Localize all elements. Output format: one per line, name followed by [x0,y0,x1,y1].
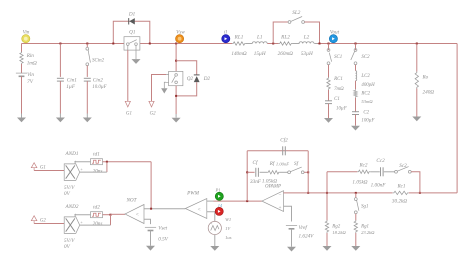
svg-text:20ns: 20ns [93,168,103,174]
switch SL2 [288,10,304,24]
wire [384,171,395,173]
svg-text:RL2: RL2 [280,34,290,40]
wire [305,22,320,44]
wire feedback right [307,151,309,193]
ground [412,117,421,122]
node junction [175,60,177,62]
source W triangle [208,217,231,240]
svg-text:+: + [210,222,212,226]
switch SC2 [351,49,370,65]
svg-text:SCin2: SCin2 [92,59,105,64]
wire [247,171,254,173]
svg-text:D1: D1 [128,12,136,18]
wire [150,162,152,209]
ground Q2 aux [161,82,167,93]
node junction [110,214,112,216]
wire [355,65,357,71]
svg-text:Rg2: Rg2 [331,225,340,230]
wire [103,214,111,216]
wire Vout feedback drop [456,44,458,193]
ground [146,246,155,251]
ground switch leg [172,118,181,123]
wire [207,200,214,202]
node junction [106,161,108,163]
capacitor C2 [352,111,376,124]
wire [280,171,288,173]
svg-text:10.0µF: 10.0µF [92,85,107,90]
wire PWM out [144,208,185,210]
svg-text:Vout: Vout [330,30,340,36]
probe Vout [329,30,339,43]
node junction [59,43,61,45]
svg-text:5V/V: 5V/V [64,238,75,244]
svg-text:20ns: 20ns [93,221,103,227]
svg-text:td2: td2 [93,205,100,211]
svg-text:D2: D2 [203,76,211,82]
wire [304,171,308,173]
wire Cin1 column [59,44,61,77]
svg-text:SL2: SL2 [292,10,300,16]
svg-text:Cc2: Cc2 [376,158,385,164]
resistor Ro [415,72,434,96]
node junction [86,43,88,45]
svg-text:53µH: 53µH [301,51,313,57]
node junction [419,192,421,194]
svg-text:10µF: 10µF [336,106,348,111]
wire main bus node Vin-Vsw-Vout [22,43,458,45]
svg-text:1µF: 1µF [66,84,76,90]
multiplier AND2 [64,204,83,250]
resistor Rc1 [392,184,409,205]
svg-text:Rg1: Rg1 [360,225,369,230]
ground [83,118,92,123]
op-amp OPAMP [262,185,284,212]
resistor RL2 [278,34,294,57]
connector G1 [125,101,132,116]
switch Q2 [166,71,193,85]
wire D2 branch top [176,61,197,75]
svg-text:0.5V: 0.5V [158,237,168,243]
svg-text:30.2kΩ: 30.2kΩ [392,198,407,204]
wire [103,161,152,163]
wire [21,64,23,73]
diode D2 [194,75,211,82]
wire [328,104,330,118]
resistor Rin [20,52,37,67]
wire [355,214,357,221]
node junction [307,192,309,194]
svg-text:18.2kΩ: 18.2kΩ [332,230,346,235]
wire top cap row [247,150,308,152]
wire [111,213,126,215]
ground [56,118,65,123]
wire [75,215,90,217]
label net [218,203,223,208]
wire [59,81,61,117]
svg-text:G1: G1 [40,165,46,170]
svg-text:7V: 7V [27,79,34,85]
wire feedback left [246,151,248,201]
wire SL2 bypass [273,22,288,44]
svg-text:Ro: Ro [422,74,429,80]
wire [355,44,357,51]
wire [327,171,357,173]
svg-text:G2: G2 [150,112,157,117]
capacitor Cf2 [280,137,288,156]
svg-text:33nF: 33nF [250,179,262,185]
probe il [222,30,230,43]
svg-text:td1: td1 [93,152,100,158]
svg-text:OPAMP: OPAMP [265,185,281,190]
svg-text:NOT: NOT [125,198,137,204]
svg-text:Q2: Q2 [187,76,194,82]
switch Q1 [124,30,140,50]
svg-text:7mΩ: 7mΩ [334,87,344,92]
svg-text:G2: G2 [40,218,47,223]
multiplier AND1 [64,151,83,197]
node junction [355,192,357,194]
svg-text:100µF: 100µF [361,119,375,124]
capacitor C1 [325,97,348,111]
wire D1 bypass loop [113,21,150,43]
resistor RC1 [327,77,344,92]
wire [328,90,330,101]
node junction [307,171,309,173]
svg-text:P1: P1 [214,188,220,193]
svg-text:1.624V: 1.624V [299,233,315,240]
node junction [416,43,418,45]
ground [287,247,296,252]
switch Sg1 [354,198,368,214]
resistor RC2 [354,89,374,104]
svg-text:Vsw: Vsw [176,30,185,36]
svg-text:Cf2: Cf2 [280,137,288,144]
svg-text:Sc2: Sc2 [399,163,407,169]
svg-text:260mΩ: 260mΩ [278,51,294,57]
svg-text:Rc2: Rc2 [358,163,367,169]
resistor Rf [262,160,280,184]
wire [328,65,330,78]
svg-text:Cin1: Cin1 [67,77,77,83]
svg-text:W1: W1 [225,217,231,222]
svg-text:1.00nF: 1.00nF [371,183,387,189]
wire [260,171,267,173]
svg-text:240Ω: 240Ω [423,89,435,96]
wire [86,44,88,48]
wire [86,81,88,117]
inductor L1 [252,34,267,57]
wire [370,171,380,173]
wire Q1 gate to G1 [127,50,129,101]
wire [416,89,418,117]
resistor Rg1 [354,220,375,235]
wire [416,44,418,72]
svg-text:RL1: RL1 [234,34,244,40]
diode D1 [128,12,136,25]
wire [409,192,457,194]
ground [17,118,26,123]
ground [351,246,360,251]
wire Vin column [21,44,23,53]
ground [323,246,332,251]
wire [355,233,357,246]
wire comp row rise [326,172,328,193]
switch SCin2 [86,47,105,65]
node junction [326,192,328,194]
wire switch node drop [175,44,177,72]
inductor L2 [299,34,314,57]
source Vin 7V [16,72,34,85]
switch Sf [276,160,304,174]
wire [411,172,420,193]
wire [355,81,357,90]
node junction switch node [175,43,177,45]
probe P2 [215,207,223,215]
svg-text:+: + [279,206,282,211]
wire [326,193,328,221]
node junction [149,43,151,45]
svg-text:Cin2: Cin2 [93,77,103,83]
svg-text:<: < [198,207,201,213]
source Vset [145,226,169,243]
wire [80,224,111,226]
wire [355,193,357,198]
capacitor Cin2 [84,77,108,90]
svg-text:1.00nF: 1.00nF [276,161,289,166]
capacitor Cc2 [371,158,387,188]
connector G2 input [31,216,46,224]
svg-text:C2: C2 [363,111,369,116]
wire opamp plus to Vref [284,206,292,221]
svg-text:1mΩ: 1mΩ [27,61,37,67]
resistor RL1 [231,34,247,57]
svg-text:400pH: 400pH [361,83,375,88]
svg-text:Vin: Vin [23,30,30,36]
wire [150,231,152,246]
wire [106,162,108,172]
wire [355,98,357,112]
svg-text:AND2: AND2 [65,204,79,210]
wire [75,162,90,164]
svg-text:SC1: SC1 [334,55,342,60]
wire [110,215,112,225]
probe Vsw [176,30,186,43]
probe P1 [214,188,223,201]
svg-text:0V: 0V [64,191,71,197]
node junction [112,43,114,45]
resistor Rc2 [352,163,370,186]
probe Vin [22,30,30,43]
wire [175,86,177,118]
svg-text:L2: L2 [303,34,310,40]
svg-text:140mΩ: 140mΩ [231,50,247,57]
svg-text:23.2kΩ: 23.2kΩ [361,230,375,235]
wire NOT to Vset [144,219,151,224]
comparator PWM [185,191,207,219]
node junction [175,95,177,97]
svg-text:PWM: PWM [186,191,199,197]
wire [86,66,88,77]
switch SC1 [327,49,342,65]
ground Q1 source [132,50,141,64]
capacitor Cin1 [57,77,77,90]
svg-text:Vset: Vset [158,226,167,232]
wire [291,229,293,247]
wire opamp out to PWM [214,200,262,202]
wire [34,170,64,172]
node junction [355,43,357,45]
svg-text:RC2: RC2 [360,92,370,97]
capacitor Cf [250,159,262,185]
svg-text:RC1: RC1 [333,77,343,82]
wire Q2 gate to G2 [152,75,167,102]
svg-text:Sg1: Sg1 [361,204,368,209]
source Vref [286,224,314,240]
node junction [272,43,274,45]
wire [328,44,330,51]
ground [210,246,219,251]
wire [21,76,23,117]
svg-text:1.05kΩ: 1.05kΩ [262,179,277,185]
inductor LC2 [356,71,376,88]
wire [326,233,328,246]
wire [34,223,64,225]
svg-text:L1: L1 [256,34,263,40]
switch Sc2 [395,163,412,173]
wire [214,235,216,246]
delay td1 [91,152,103,175]
wire [355,115,357,126]
svg-text:G1: G1 [126,112,132,117]
svg-text:Rin: Rin [26,53,35,59]
svg-text:0V: 0V [64,244,71,250]
svg-text:Vin: Vin [27,72,34,78]
ground [351,126,360,131]
ground [324,118,333,123]
svg-text:1.05kΩ: 1.05kΩ [352,180,367,186]
svg-text:53mΩ: 53mΩ [361,99,373,104]
svg-text:1us: 1us [225,235,232,240]
wire D2 branch bottom [176,82,197,96]
wire [207,212,215,222]
connector G2 [149,101,156,116]
svg-text:C1: C1 [334,97,340,102]
svg-text:Q1: Q1 [129,30,136,36]
svg-text:15µH: 15µH [254,51,266,57]
comparator NOT [125,198,144,224]
node junction [150,208,152,210]
node junction [319,43,321,45]
svg-text:AND1: AND1 [65,151,79,157]
node junction [328,43,330,45]
node junction [246,200,248,202]
wire inverting input line [284,192,393,194]
wire [80,171,107,173]
node junction [246,171,248,173]
svg-text:<: < [136,212,139,218]
svg-text:SC2: SC2 [361,55,370,60]
resistor Rg2 [325,220,346,235]
svg-text:5V/V: 5V/V [64,185,75,191]
svg-text:LC2: LC2 [360,74,370,79]
svg-text:Rc1: Rc1 [396,184,405,190]
delay td2 [91,205,103,227]
connector G1 input [31,163,46,171]
svg-text:−: − [279,193,282,198]
